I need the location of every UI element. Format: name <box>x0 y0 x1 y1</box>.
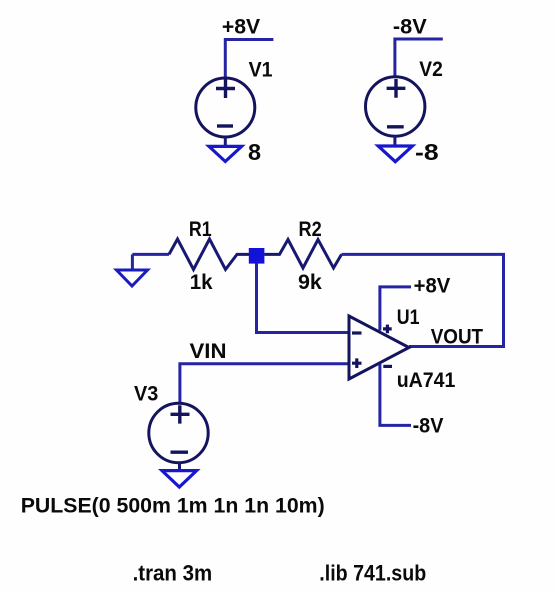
label VIN <box>190 340 227 363</box>
wire feedback R2 to VOUT <box>342 254 504 346</box>
voltage source V3 <box>149 403 208 462</box>
svg-text:+8V: +8V <box>414 275 451 298</box>
wire VIN to non-inverting input <box>180 364 348 403</box>
svg-text:R1: R1 <box>189 218 212 241</box>
value label 9k <box>298 271 322 294</box>
value label 8 <box>248 139 261 165</box>
label V1 <box>249 59 273 82</box>
svg-text:PULSE(0 500m 1m 1n 1n 10m): PULSE(0 500m 1m 1n 1n 10m) <box>21 494 325 518</box>
svg-text:V1: V1 <box>249 59 273 82</box>
wire op-amp V+ supply <box>380 287 411 331</box>
wire V3 to ground <box>178 463 181 471</box>
ground below V1 <box>209 146 242 161</box>
label VOUT <box>431 325 484 348</box>
wire V1 to ground <box>224 137 227 146</box>
node +8V label (V1 top) <box>222 15 260 38</box>
svg-text:+8V: +8V <box>222 15 260 38</box>
svg-text:V3: V3 <box>134 382 158 405</box>
ground below V2 <box>378 146 412 162</box>
svg-text:uA741: uA741 <box>397 369 456 392</box>
spice directive .lib <box>319 561 426 586</box>
svg-text:V2: V2 <box>419 58 443 81</box>
spice directive .tran <box>133 561 213 586</box>
wire V2 to ground <box>393 136 396 146</box>
svg-text:-8: -8 <box>415 139 439 165</box>
svg-text:1k: 1k <box>190 271 213 294</box>
svg-text:U1: U1 <box>397 306 420 329</box>
ground left of R1 <box>117 254 148 286</box>
svg-text:VIN: VIN <box>190 340 227 363</box>
wire junction to inverting input <box>257 264 349 333</box>
voltage source V1 <box>196 78 255 137</box>
wire V2 top rail <box>395 39 443 76</box>
value label -8 <box>415 139 439 165</box>
op-amp U1 <box>349 316 409 379</box>
wire ground to R1 <box>132 253 169 256</box>
node junction between R1 and R2 <box>249 248 265 264</box>
svg-text:.tran 3m: .tran 3m <box>133 561 213 586</box>
value label PULSE of V3 <box>21 494 325 518</box>
node +8V label (op-amp supply) <box>414 275 451 298</box>
label R1 <box>189 218 212 241</box>
resistor R1 <box>169 239 249 270</box>
svg-text:-8V: -8V <box>393 15 427 38</box>
node -8V label (V2 top) <box>393 15 427 38</box>
resistor R2 <box>264 240 341 269</box>
ground below V3 <box>162 471 197 487</box>
svg-text:.lib 741.sub: .lib 741.sub <box>319 561 426 586</box>
svg-text:9k: 9k <box>298 271 322 294</box>
svg-text:VOUT: VOUT <box>431 325 484 348</box>
wire V1 top rail <box>225 40 273 79</box>
label R2 <box>299 218 322 241</box>
node -8V label (op-amp supply) <box>413 415 444 438</box>
svg-text:-8V: -8V <box>413 415 444 438</box>
label V3 <box>134 382 158 405</box>
label V2 <box>419 58 443 81</box>
voltage source V2 <box>366 77 425 136</box>
label uA741 <box>397 369 456 392</box>
value label 1k <box>190 271 213 294</box>
label U1 <box>397 306 420 329</box>
wire op-amp V- supply <box>380 364 411 425</box>
svg-text:8: 8 <box>248 139 261 165</box>
